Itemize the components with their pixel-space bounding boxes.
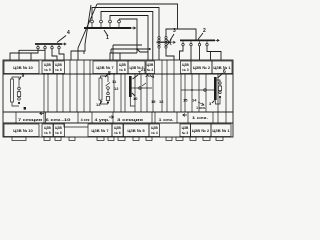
bar6 contact circle 2 [219,91,221,93]
svg-text:ЦЗВ: ЦЗВ [182,126,189,130]
wire y90 right [181,89,214,91]
sub-shelf in empty bottom segment [64,123,88,127]
wire diagonal left B [71,5,91,60]
svg-text:ЦЗВ: ЦЗВ [119,63,126,67]
svg-text:№ 4: № 4 [151,131,157,135]
svg-text:ЦЗВ № 5: ЦЗВ № 5 [127,128,145,133]
svg-text:ЦЗВ: ЦЗВ [44,126,51,130]
svg-text:№ 3: № 3 [182,131,188,135]
svg-text:6 сек.-10: 6 сек.-10 [46,118,71,122]
block 7 base wire [101,100,109,104]
bar6 contact circle [219,82,221,84]
bar6 wires [219,84,221,86]
bar7 contact stroke [142,83,146,86]
svg-text:14: 14 [192,98,197,103]
svg-text:ЦЗВ № 5: ЦЗВ № 5 [130,65,145,70]
label 2 pointer [198,33,203,40]
svg-text:1 осн.: 1 осн. [196,106,206,110]
label 8 pointer [105,74,108,77]
block 7 junction dot [107,101,109,103]
arrowhead mid run [149,48,151,50]
svg-text:ЦЗВ № 10: ЦЗВ № 10 [13,128,33,133]
svg-text:ЦЗВ: ЦЗВ [55,126,62,130]
svg-text:2: 2 [203,28,206,34]
cross mark x5 [146,73,150,77]
svg-text:ЦЗВ: ЦЗВ [182,63,189,67]
wire top run 1 [97,4,178,36]
wire bus2 drop 1 [180,46,184,60]
svg-text:3: 3 [173,28,176,34]
block 10 bottom wire [18,90,20,92]
wire mid drop x111 [110,49,111,60]
wire bus4 drop 2 [44,49,46,60]
bar6 chain wire [217,80,220,82]
wire mid y53 [110,52,137,54]
svg-text:ЦЗВ № 7: ЦЗВ № 7 [96,65,114,70]
wire arrow text row 2 [109,116,114,119]
top box row boxes [4,61,232,74]
svg-text:ЦЗВ № 1: ЦЗВ № 1 [213,65,231,70]
box labels bottom row [13,126,230,135]
svg-text:ЦЗВ: ЦЗВ [55,63,62,67]
svg-text:8: 8 [108,71,111,77]
block 7 contact circle 2 [107,92,110,95]
svg-text:ЦЗВ № 2: ЦЗВ № 2 [193,65,211,70]
wire cluster bottom verticals [147,52,149,60]
band outer frame [3,60,233,137]
junction dots on shelf [43,48,193,91]
svg-text:10: 10 [133,96,138,101]
bar7 bottom wire [130,97,135,106]
label 5 pointer [150,75,152,77]
paper background [0,0,238,141]
wire diagonal left A [78,4,97,60]
wire top run 3 [101,12,153,43]
svg-text:№ 6: № 6 [119,68,125,72]
svg-text:13: 13 [96,102,101,107]
wire stub x196 [178,29,197,40]
wire stub x31 [30,53,32,60]
label 13 pointer [100,101,102,104]
bus bar 4 [35,43,66,45]
shelf line under top boxes [3,73,233,75]
svg-text:12: 12 [114,86,119,91]
svg-text:9: 9 [22,73,25,79]
contact circle y90 [204,89,207,92]
svg-text:3 секция: 3 секция [117,118,143,122]
terminal ticks bus 4 [37,45,61,49]
text row cell borders [16,112,213,123]
svg-text:ЦЗВ: ЦЗВ [114,126,121,130]
label 3 pointer [170,34,174,41]
svg-text:№ 9: № 9 [44,131,50,135]
box labels top row [13,63,231,72]
label 9 pointer [20,77,22,80]
block 7 wires [107,89,109,92]
svg-text:ЦЗВ № 1: ЦЗВ № 1 [212,128,230,133]
block 10 contact circle 2 [18,98,21,101]
svg-text:1 сек.: 1 сек. [192,116,208,120]
middle area vertical wires [44,60,226,123]
block 10 mark [24,107,26,110]
svg-text:1: 1 [106,35,109,41]
wire mid x137 join [137,49,148,52]
block 7 resistor [99,78,102,100]
wire run y50 left [19,50,45,60]
bottom box row boxes [4,124,231,137]
wire arrow text row 1 [40,112,44,115]
wire top run 2 [92,8,159,37]
block 10 base wire [12,102,19,106]
wire bus2 drop 5 [211,52,222,61]
svg-text:№ 9: № 9 [44,68,50,72]
svg-text:ЦЗВ № 10: ЦЗВ № 10 [13,65,33,70]
svg-text:ЦЗВ: ЦЗВ [147,63,154,67]
svg-text:№ 8: № 8 [55,68,61,72]
wire bus2 drop 3 [199,46,201,60]
connector feet [12,137,223,141]
bar6 junction dot [219,96,221,98]
block 10 contact circle [18,87,21,90]
label 4 pointer [57,36,66,43]
wire cluster x152 [152,42,154,60]
text row labels [18,106,208,122]
block 7 top wire [101,76,109,82]
block 10 top wire [12,77,19,87]
wire mid x120 drop [119,53,121,60]
wire bus2 drop 4 [207,46,211,60]
block 7 coil [106,97,109,101]
svg-text:7 секция: 7 секция [18,118,42,122]
svg-text:№ 6: № 6 [114,131,120,135]
svg-text:4 сек: 4 сек [81,118,90,122]
wire top run 5 [119,19,137,53]
bar7 mid wire [132,87,152,89]
labels text [22,28,227,107]
label 1 pointer [104,30,108,36]
svg-text:ЦЗВ: ЦЗВ [151,126,158,130]
block 10 coil [17,92,20,97]
label 10 pointer [132,93,135,96]
svg-text:15: 15 [183,98,188,103]
block 10 resistor [11,79,14,102]
svg-text:№ 4: № 4 [147,68,153,72]
svg-text:4 упр.: 4 упр. [95,118,110,122]
block 10 junction dot [18,102,20,104]
svg-text:ЦЗВ: ЦЗВ [44,63,51,67]
bar6 coil [218,86,221,91]
wire top run 4 [110,16,148,53]
terminal ticks bus 1 [91,19,121,27]
svg-text:№ 8: № 8 [55,131,61,135]
contact cluster 3 [157,37,176,49]
svg-text:15: 15 [151,99,156,104]
bus bar 2 [180,39,219,41]
svg-text:ЦЗВ № 2: ЦЗВ № 2 [192,128,210,133]
terminal ticks bus 2 [182,41,208,45]
wire mid step drop [112,45,114,60]
label 3b pointer [212,101,215,104]
bar 7 (thick) [129,76,132,97]
wire cluster drops [158,48,160,60]
svg-text:4: 4 [67,30,70,36]
svg-text:ЦЗВ № 7: ЦЗВ № 7 [91,128,109,133]
wire step under diagonals [83,51,85,54]
label 6 pointer [218,73,224,78]
bus bar 1 [84,27,136,29]
line above bottom boxes [3,122,233,124]
arrow 14 [198,102,204,105]
svg-text:№ 3: № 3 [182,68,188,72]
line above text row [3,111,233,113]
block 7 contact stroke [106,83,111,87]
wire bus2 drop 2 [190,46,192,60]
wire bus4 drop 3 [52,49,57,60]
bar7 contact circle [139,87,142,90]
wire mid step left of bus1 [113,44,142,46]
svg-text:1 сек.: 1 сек. [159,118,174,122]
wire bus4 drop 1 [10,49,38,60]
block 7 contact circle [107,87,110,90]
wire cluster drop 2 [166,48,174,60]
svg-text:16: 16 [159,99,164,104]
wire mid long arrow run [111,48,151,50]
label 7 pointer [133,75,139,79]
bar6 bottom wire [215,98,220,104]
wire bus4 drop 4 [59,49,64,60]
wire arrow text row 3 [183,114,187,117]
bar 6 (thick right) [214,77,217,100]
